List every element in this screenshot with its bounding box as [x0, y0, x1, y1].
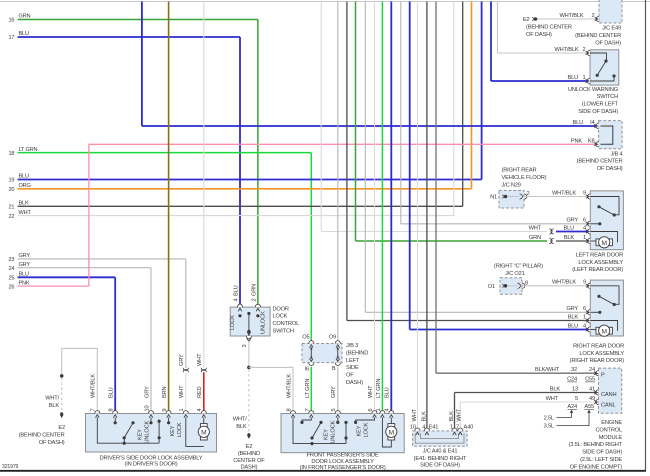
left rear door motor circuit: [590, 232, 617, 243]
wire 25 BLU horizontal: [18, 276, 116, 278]
pin 13/41 of ECM: [596, 390, 599, 395]
svg-text:WHT: WHT: [368, 385, 374, 398]
svg-text:(BEHIND CENTER: (BEHIND CENTER: [575, 33, 621, 39]
svg-text:(2.5L: LEFT SIDE: (2.5L: LEFT SIDE: [580, 457, 622, 463]
wire LT GRN J/B3 I6 to passenger pin 7: [310, 367, 312, 414]
pin 5/49 of ECM: [596, 399, 599, 404]
svg-text:J/C A40 & E41: J/C A40 & E41: [423, 449, 458, 455]
door lock control switch box: [230, 307, 270, 336]
svg-text:SIDE OF DASH): SIDE OF DASH): [582, 450, 622, 456]
svg-text:ENGINE: ENGINE: [601, 420, 622, 426]
svg-text:LOCK ASSEMBLY: LOCK ASSEMBLY: [579, 351, 624, 357]
inline connector WHT to RED on driver pin4 wire: [201, 368, 206, 371]
junction connector J/C E49: [599, 0, 622, 23]
pin 9 of right rear door: [587, 283, 590, 288]
pin O5 of J/B3: [309, 341, 314, 344]
svg-text:BLU: BLU: [563, 225, 574, 231]
wire WHT vertical from top to J/C A40-E41 pin 10: [417, 2, 419, 431]
svg-text:J/C E49: J/C E49: [602, 26, 621, 32]
pin 1 of J/C A40-E41: [452, 428, 457, 431]
svg-text:BLK/WHT: BLK/WHT: [535, 367, 560, 373]
svg-text:UNLOCK: UNLOCK: [145, 420, 151, 443]
wire 21 BLK horizontal: [18, 205, 463, 207]
wire GRY horizontal to left rear door pin 6: [401, 223, 588, 225]
svg-text:(LOWER LEFT: (LOWER LEFT: [582, 102, 619, 108]
junction block J/B 3: [302, 344, 342, 363]
pin 4 of right rear door: [587, 327, 590, 332]
svg-text:WHT/BLK: WHT/BLK: [552, 280, 576, 286]
pin 3 bump of control switch: [246, 336, 251, 339]
wire WHT segment to driver pin 1: [185, 372, 187, 413]
svg-text:23: 23: [9, 257, 15, 263]
svg-text:BRN: BRN: [162, 386, 168, 398]
dashed WHT/BLK to left E2 ground: [61, 378, 63, 414]
svg-text:DOOR LOCK ASSEMBLY: DOOR LOCK ASSEMBLY: [311, 459, 374, 465]
wire 20 ORG vertical to top edge: [471, 2, 473, 189]
wire BLU horizontal to right rear door pin 4: [410, 329, 588, 331]
wire BLU horizontal to J/B4 pin I4: [142, 125, 597, 127]
wire BLK/WHT vertical from top at x436: [435, 2, 437, 374]
pin K8 of J/B4: [596, 142, 599, 147]
wire 19 BLU vertical to top edge: [481, 2, 483, 180]
pin 8 of J/C O21: [518, 283, 521, 288]
wire BLK vertical from top at x347: [346, 2, 348, 321]
svg-text:J/C N29: J/C N29: [502, 182, 521, 188]
svg-text:GRY: GRY: [19, 253, 31, 259]
svg-text:1: 1: [583, 314, 586, 320]
svg-text:17: 17: [9, 35, 15, 41]
pin O9 of J/B3: [335, 341, 340, 344]
passenger door motor: [382, 418, 391, 448]
svg-text:PNK: PNK: [19, 280, 30, 286]
wire BLU vertical from top at x142: [141, 2, 143, 127]
svg-text:SIDE OF DASH): SIDE OF DASH): [420, 463, 460, 469]
svg-text:4: 4: [583, 323, 586, 329]
svg-text:E41: E41: [429, 424, 439, 430]
pin bump driver box x=115.2: [113, 411, 118, 414]
svg-text:LOCK: LOCK: [363, 422, 369, 437]
svg-text:LOCK: LOCK: [273, 314, 288, 320]
svg-text:BLK: BLK: [550, 386, 561, 392]
svg-text:GRN: GRN: [251, 284, 257, 296]
svg-text:18: 18: [9, 151, 15, 157]
svg-text:20: 20: [9, 187, 15, 193]
junction node center E2: [247, 366, 251, 370]
wire BLU vertical from top at x491: [490, 2, 492, 82]
wire 22 WHT vertical to top edge: [453, 2, 455, 216]
wire WHT vertical from top to passenger pin 6: [374, 2, 376, 414]
svg-text:OF: OF: [346, 373, 354, 379]
svg-text:WHT/BLK: WHT/BLK: [91, 374, 97, 398]
svg-text:(IN DRIVER’S DOOR): (IN DRIVER’S DOOR): [124, 461, 177, 467]
wire GRN vertical from top at x355: [355, 2, 357, 242]
wire WHT/BLK from E2 to J/C E49 pin 2: [538, 18, 600, 20]
pin bump passenger box x=374.5: [372, 411, 377, 414]
wire BLK vertical to J/C A40-E41 pin 1: [454, 393, 456, 431]
wire WHT/BLK vertical from top at x497: [497, 2, 499, 54]
svg-text:CONTROL: CONTROL: [273, 321, 300, 327]
svg-text:WHT: WHT: [457, 408, 463, 421]
svg-text:3: 3: [242, 345, 248, 348]
left rear door lock assembly box: [590, 191, 623, 250]
svg-text:WHT/BLK: WHT/BLK: [286, 374, 292, 398]
wire BLK horizontal to right rear door pin 1: [347, 320, 588, 322]
svg-text:E2: E2: [523, 17, 530, 23]
wire WHT/BLK from control switch pin 3 to junction: [248, 341, 250, 367]
svg-text:DRIVER’S SIDE DOOR LOCK ASSEMB: DRIVER’S SIDE DOOR LOCK ASSEMBLY: [100, 455, 203, 461]
pin 4 bump of control switch: [237, 304, 242, 307]
pin 2 of unlock warning switch: [587, 50, 590, 55]
svg-text:BLK: BLK: [568, 314, 579, 320]
svg-text:(RIGHT REAR: (RIGHT REAR: [502, 168, 537, 174]
svg-text:1: 1: [583, 75, 586, 81]
svg-text:M: M: [389, 429, 394, 436]
pin bump passenger box x=337.8: [335, 411, 340, 414]
right frame border: [645, 0, 647, 471]
svg-text:UNLOCK: UNLOCK: [261, 311, 267, 334]
svg-text:4: 4: [583, 225, 586, 231]
svg-text:KEY: KEY: [324, 429, 330, 440]
front passenger side door lock assembly box: [281, 414, 404, 453]
svg-text:(RIGHT “C” PILLAR): (RIGHT “C” PILLAR): [494, 263, 543, 269]
svg-text:GRN: GRN: [529, 235, 541, 241]
junction connector J/C N29: [499, 191, 524, 209]
pin B of J/B3: [335, 363, 340, 366]
pin bump passenger box x=382.4: [380, 411, 385, 414]
svg-text:SWITCH: SWITCH: [597, 94, 618, 100]
svg-text:ORG: ORG: [19, 183, 31, 189]
svg-text:GRY: GRY: [179, 354, 185, 366]
pin I6 of J/B3: [309, 363, 314, 366]
svg-text:(BEHIND: (BEHIND: [238, 451, 260, 457]
pin 2 bump of control switch: [255, 304, 260, 307]
wire WHT vertical from top at x321: [320, 2, 322, 232]
svg-text:CANL: CANL: [601, 402, 615, 408]
svg-text:WHT: WHT: [546, 396, 559, 402]
svg-text:WHT: WHT: [179, 385, 185, 398]
svg-text:SIDE: SIDE: [346, 365, 359, 371]
svg-text:RED: RED: [197, 386, 203, 398]
svg-text:RIGHT REAR DOOR: RIGHT REAR DOOR: [573, 343, 624, 349]
svg-text:26: 26: [9, 284, 15, 290]
svg-text:13: 13: [572, 386, 578, 392]
svg-text:OF DASH): OF DASH): [39, 440, 65, 446]
terminal O1: [502, 284, 504, 288]
control switch contacts: [238, 314, 241, 317]
pin 4 of J/C A40-E41: [424, 428, 429, 431]
wire WHT/BLK from J/C O21 to right rear door pin 9: [522, 285, 588, 287]
unlock warning switch box: [590, 50, 619, 85]
wire 17 BLU vertical to control switch pin 4: [239, 37, 241, 305]
svg-text:BLU: BLU: [567, 323, 578, 329]
svg-text:BLK: BLK: [564, 235, 575, 241]
svg-text:M: M: [201, 429, 206, 436]
svg-text:BLK: BLK: [236, 424, 247, 430]
pin 6 of left rear door: [587, 221, 590, 226]
wire inside J/C O21: [507, 285, 517, 287]
svg-text:I4: I4: [590, 120, 594, 126]
svg-text:J/B 4: J/B 4: [610, 151, 622, 157]
svg-text:WHT: WHT: [19, 210, 32, 216]
svg-text:WHT: WHT: [529, 225, 542, 231]
svg-text:GRY: GRY: [331, 386, 337, 398]
svg-text:OF DASH): OF DASH): [526, 32, 552, 38]
svg-text:O5: O5: [302, 335, 309, 341]
pin bump driver box x=203.8: [201, 411, 206, 414]
svg-text:WHT/BLK: WHT/BLK: [552, 190, 576, 196]
svg-text:9: 9: [583, 280, 586, 286]
svg-text:DOOR: DOOR: [273, 306, 289, 312]
svg-text:A40: A40: [464, 424, 474, 430]
svg-text:BLU: BLU: [19, 174, 29, 180]
svg-text:CONTROL: CONTROL: [595, 427, 622, 433]
wire BLK/WHT horizontal to ECM pin 32/24: [436, 372, 599, 374]
svg-text:LEFT: LEFT: [346, 358, 360, 364]
wire 26 PNK up and right to J/B4 pin K8: [89, 144, 597, 286]
svg-text:WHT: WHT: [197, 353, 203, 366]
svg-text:1: 1: [450, 424, 453, 430]
svg-text:C24: C24: [567, 377, 577, 383]
svg-text:LOCK ASSEMBLY: LOCK ASSEMBLY: [578, 260, 623, 266]
svg-text:4: 4: [234, 299, 240, 302]
svg-text:(BEHIND CENTER: (BEHIND CENTER: [19, 433, 65, 439]
svg-text:GRY: GRY: [19, 262, 31, 268]
svg-text:(IN FRONT PASSENGER’S DOOR): (IN FRONT PASSENGER’S DOOR): [300, 465, 386, 471]
svg-text:OF ENGINE COMPT): OF ENGINE COMPT): [570, 464, 623, 470]
svg-text:OF DASH): OF DASH): [597, 166, 623, 172]
passenger box internal circuit: [293, 418, 346, 444]
pin 4 of left rear door: [587, 229, 590, 234]
terminal N1: [502, 195, 504, 199]
svg-text:BLK: BLK: [421, 411, 427, 422]
svg-text:2.5L: 2.5L: [544, 415, 554, 421]
ground E2 left: [60, 412, 63, 415]
svg-text:BLU: BLU: [572, 120, 583, 126]
svg-text:(BEHIND CENTER: (BEHIND CENTER: [577, 159, 623, 165]
svg-text:10: 10: [410, 424, 416, 430]
driver side door lock assembly box: [86, 414, 217, 453]
svg-text:7: 7: [456, 424, 459, 430]
svg-text:DASH): DASH): [241, 465, 258, 471]
pin 6 of right rear door: [587, 310, 590, 315]
driver box internal circuit: [97, 418, 124, 444]
wire 17 BLU horizontal: [18, 36, 240, 38]
svg-text:1: 1: [583, 235, 586, 241]
svg-text:KEY: KEY: [170, 425, 176, 436]
svg-text:(LEFT REAR DOOR): (LEFT REAR DOOR): [572, 267, 623, 273]
svg-text:FRONT PASSENGER’S SIDE: FRONT PASSENGER’S SIDE: [307, 453, 379, 459]
pin 9 of left rear door: [587, 194, 590, 199]
svg-text:(3.5L: BEHIND RIGHT: (3.5L: BEHIND RIGHT: [569, 442, 623, 448]
wire WHT horizontal ECM pin 5/49: [460, 401, 598, 403]
svg-text:BLU: BLU: [385, 387, 391, 398]
svg-text:B: B: [332, 366, 336, 372]
svg-text:LOCK: LOCK: [177, 422, 183, 437]
wire 24 GRY vertical to driver pin 10: [150, 268, 152, 414]
svg-text:9: 9: [583, 190, 586, 196]
wire WHT vertical to J/C A40-E41 pin 7: [459, 402, 461, 430]
svg-text:19: 19: [9, 178, 15, 184]
wire BLK vertical from top to J/C A40-E41 pin 4: [426, 2, 428, 431]
inline connector GRN to BLK: [549, 238, 552, 243]
right rear door lock position switch: [590, 286, 619, 305]
svg-text:GRY: GRY: [566, 306, 578, 312]
svg-text:J/C O21: J/C O21: [505, 271, 525, 277]
wire 22 WHT horizontal: [18, 215, 454, 217]
svg-text:BLU: BLU: [234, 285, 240, 296]
svg-text:LT GRN: LT GRN: [19, 147, 38, 153]
svg-text:BLK: BLK: [49, 403, 60, 409]
svg-text:E2: E2: [246, 444, 253, 450]
svg-text:32: 32: [571, 367, 577, 373]
pin bump passenger box x=311.3: [309, 411, 314, 414]
wire BLU segment to left rear pin 4: [556, 231, 590, 233]
svg-text:O1: O1: [488, 284, 495, 290]
svg-text:K8: K8: [588, 138, 595, 144]
svg-text:UNLOCK: UNLOCK: [331, 420, 337, 443]
wire BLU vertical from top to passenger pin 4: [390, 2, 392, 414]
wire BLU vertical from top at x410: [409, 2, 411, 330]
wire 23 GRY horizontal: [18, 258, 186, 260]
wire GRY J/B3 B to passenger pin 5: [337, 367, 339, 414]
svg-text:2: 2: [251, 299, 257, 302]
svg-text:SWITCH: SWITCH: [273, 329, 294, 335]
svg-text:KEY: KEY: [356, 425, 362, 436]
svg-text:2: 2: [583, 47, 586, 53]
svg-text:O9: O9: [329, 335, 336, 341]
ground E2 center: [247, 433, 250, 436]
pin 10 of J/C A40-E41: [415, 428, 420, 431]
svg-text:(BEHIND: (BEHIND: [346, 350, 368, 356]
svg-text:(E41: BEHIND RIGHT: (E41: BEHIND RIGHT: [414, 456, 467, 462]
svg-text:4: 4: [422, 424, 425, 430]
J/B4 internal link: [601, 126, 613, 144]
svg-text:6: 6: [583, 218, 586, 224]
pin bump driver box x=185.8: [183, 411, 188, 414]
right rear door lock assembly box: [590, 280, 623, 336]
wire 21 BLK vertical to top edge: [462, 2, 464, 207]
wire WHT horizontal to inline connector toward left rear door pin 4: [321, 231, 547, 233]
pin 7 of J/C A40-E41: [458, 428, 463, 431]
svg-text:25: 25: [9, 276, 15, 282]
junction connector J/C O21: [500, 278, 522, 295]
engine control module box: [599, 368, 622, 413]
svg-text:BLU: BLU: [19, 31, 29, 37]
svg-text:5: 5: [575, 396, 578, 402]
svg-text:A24: A24: [567, 404, 577, 410]
wire WHT/BLK driver pin 7 to left E2: [62, 348, 98, 413]
wire 19 BLU horizontal: [18, 179, 482, 181]
left rear door lock position switch: [590, 197, 619, 215]
J/B3 internal links: [310, 348, 312, 359]
svg-text:21: 21: [9, 205, 15, 211]
wire RED segment to driver pin 4: [203, 372, 205, 413]
pin 32/24 of ECM: [596, 371, 599, 376]
svg-text:GRN: GRN: [19, 14, 31, 20]
svg-text:49: 49: [589, 396, 595, 402]
svg-text:DASH): DASH): [346, 380, 363, 386]
svg-text:24: 24: [589, 367, 595, 373]
wire 18 LT GRN vertical to J/B3 pin O5: [310, 153, 312, 344]
wire WHT vertical from top to inline connector above driver pin 4: [203, 2, 205, 369]
svg-text:UNLOCK WARNING: UNLOCK WARNING: [568, 87, 618, 93]
svg-text:SIDE OF DASH): SIDE OF DASH): [578, 109, 618, 115]
svg-text:321979: 321979: [2, 464, 19, 470]
svg-text:41: 41: [589, 386, 595, 392]
svg-text:J/B 3: J/B 3: [346, 343, 358, 349]
wire 26 PNK horizontal: [18, 285, 89, 287]
pin bump driver box x=151.0: [148, 411, 153, 414]
svg-text:3.5L: 3.5L: [544, 424, 554, 430]
wire WHT/BLK horizontal to unlock warning switch pin 2: [498, 52, 588, 54]
pin 1 of unlock warning switch: [587, 78, 590, 83]
svg-text:N1: N1: [490, 195, 497, 201]
wire 16 GRN horizontal: [18, 19, 258, 21]
wire 18 LT GRN horizontal: [18, 152, 312, 154]
svg-text:LOCK: LOCK: [230, 315, 236, 330]
svg-text:KEY: KEY: [138, 429, 144, 440]
bottom frame border: [0, 470, 646, 472]
wire GRN horizontal to inline connector toward left rear door pin 1: [356, 240, 548, 242]
svg-text:WHT/BLK: WHT/BLK: [559, 13, 583, 19]
svg-text:BLK: BLK: [449, 411, 455, 422]
svg-text:VEHICLE FLOOR): VEHICLE FLOOR): [502, 175, 547, 181]
junction block J/B 4: [599, 121, 623, 149]
svg-text:22: 22: [9, 214, 15, 220]
wire GRY vertical from top at x365: [364, 2, 366, 313]
wire WHT/BLK junction to passenger pin 8: [249, 367, 293, 413]
svg-text:OF DASH): OF DASH): [595, 40, 621, 46]
svg-text:6: 6: [583, 306, 586, 312]
svg-text:C55: C55: [585, 377, 595, 383]
pin 2 of J/C N29: [520, 194, 523, 199]
pin I4 of J/B4: [596, 123, 599, 128]
terminal E2 (behind center of dash): [532, 17, 534, 21]
svg-text:P: P: [601, 372, 605, 378]
svg-text:(RIGHT REAR DOOR): (RIGHT REAR DOOR): [570, 358, 625, 364]
svg-text:LT GRN: LT GRN: [376, 379, 382, 398]
svg-text:CANH: CANH: [601, 392, 616, 398]
pin 2 of J/C E49: [596, 16, 599, 21]
svg-text:2: 2: [592, 13, 595, 19]
svg-text:24: 24: [9, 266, 15, 272]
unlock warning switch contacts: [590, 53, 607, 60]
wire WHT/BLK from J/C N29 to left rear door pin 9: [524, 196, 588, 198]
top frame border: [0, 1, 650, 3]
svg-text:BLU: BLU: [109, 387, 115, 398]
wire BLU horizontal to unlock warning switch pin 1: [491, 80, 588, 82]
svg-text:GRY: GRY: [145, 386, 151, 398]
svg-text:WHT/: WHT/: [233, 417, 247, 423]
svg-text:MODULE: MODULE: [599, 435, 623, 441]
dashed WHT/BLK to center E2 ground: [248, 369, 250, 435]
svg-text:WHT/BLK: WHT/BLK: [554, 47, 578, 53]
svg-text:CENTER OF: CENTER OF: [233, 458, 265, 464]
right rear door motor circuit: [590, 321, 617, 331]
svg-text:M: M: [602, 240, 607, 247]
svg-text:M: M: [602, 328, 607, 335]
wire LT GRN vertical from top to passenger pin 1: [381, 2, 383, 414]
pin 1 of right rear door: [587, 318, 590, 323]
wire inside J/C N29: [507, 196, 519, 198]
svg-text:GRY: GRY: [566, 218, 578, 224]
svg-text:BLU: BLU: [567, 75, 578, 81]
pin bump passenger box x=293.0: [290, 411, 295, 414]
pin bump driver box x=168.6: [166, 411, 171, 414]
wire GRY vertical from top to J/B3 pin O9: [337, 2, 339, 344]
svg-text:A55: A55: [584, 404, 594, 410]
svg-text:LEFT REAR DOOR: LEFT REAR DOOR: [576, 252, 623, 258]
